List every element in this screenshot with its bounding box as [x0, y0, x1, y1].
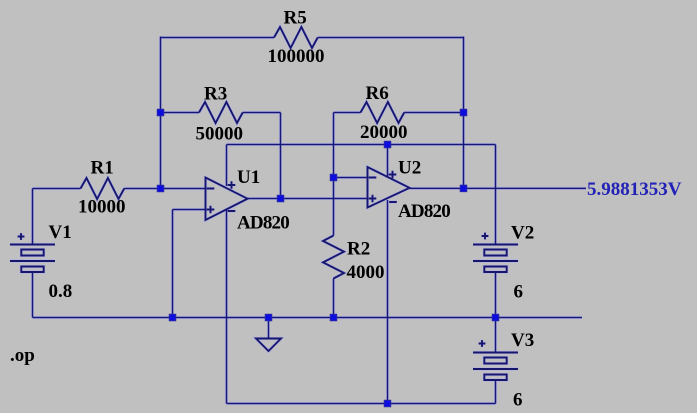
svg-text:50000: 50000	[196, 124, 244, 145]
svg-text:R2: R2	[347, 239, 370, 260]
svg-text:AD820: AD820	[237, 213, 289, 234]
svg-text:20000: 20000	[360, 122, 408, 143]
svg-text:U1: U1	[237, 167, 260, 188]
svg-text:4000: 4000	[347, 262, 385, 283]
svg-text:6: 6	[514, 282, 524, 303]
svg-text:10000: 10000	[78, 197, 126, 218]
svg-text:U2: U2	[398, 158, 421, 179]
svg-text:R1: R1	[91, 158, 114, 179]
svg-text:V2: V2	[511, 223, 534, 244]
svg-text:V1: V1	[49, 222, 72, 243]
svg-text:.op: .op	[10, 345, 35, 366]
svg-text:5.9881353V: 5.9881353V	[587, 179, 682, 200]
svg-text:V3: V3	[511, 330, 534, 351]
svg-text:6: 6	[513, 390, 523, 411]
svg-text:100000: 100000	[268, 46, 325, 67]
svg-text:R5: R5	[284, 8, 307, 29]
svg-text:0.8: 0.8	[49, 281, 73, 302]
svg-text:R6: R6	[366, 83, 389, 104]
svg-text:AD820: AD820	[398, 201, 450, 222]
svg-text:R3: R3	[204, 84, 227, 105]
